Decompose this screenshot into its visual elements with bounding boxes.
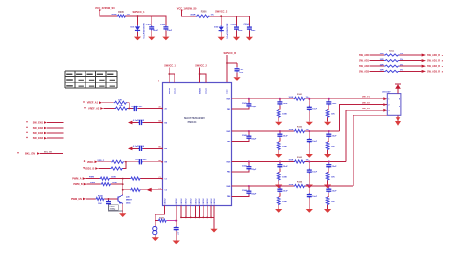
svg-text:100K: 100K [282, 114, 287, 116]
ground [134, 37, 141, 41]
svg-text:0.1uF/C322: 0.1uF/C322 [135, 159, 147, 161]
ground [148, 37, 155, 41]
svg-text:3: 3 [388, 110, 389, 112]
svg-text:R305: R305 [118, 11, 124, 14]
capacitor C303 [231, 16, 244, 37]
svg-text:8: 8 [442, 55, 444, 57]
wire junction [105, 198, 118, 200]
svg-text:SW_AD2: SW_AD2 [359, 65, 370, 68]
wire [87, 183, 101, 185]
svg-text:SW1: SW1 [226, 99, 230, 101]
svg-text:5: 5 [399, 106, 400, 108]
svg-text:FB2: FB2 [227, 141, 230, 143]
net label SW_EN4 [26, 137, 63, 140]
svg-text:VDD1_B: VDD1_B [84, 168, 94, 171]
capacitor C331 [174, 206, 180, 241]
svg-text:R306: R306 [201, 11, 207, 14]
svg-text:10K: 10K [331, 114, 335, 116]
ground [324, 209, 331, 213]
svg-text:SW2: SW2 [226, 131, 230, 133]
capacitor C321 [131, 106, 143, 111]
pin SW2IN pair [199, 87, 207, 94]
svg-text:10K: 10K [98, 203, 102, 205]
svg-text:VREF_A1: VREF_A1 [87, 102, 99, 105]
capacitor C353 [277, 162, 288, 173]
ground [162, 37, 169, 41]
value label 0.1uF 25V X7R [143, 23, 145, 38]
capacitor C302 [160, 16, 173, 37]
resistor R313 [370, 64, 422, 67]
wire bottom bus [180, 217, 214, 219]
wire rail row 4 [232, 185, 354, 187]
svg-text:3904: 3904 [126, 202, 131, 205]
pin names row 4 [226, 185, 230, 198]
net label SW_V1 [362, 97, 387, 100]
svg-text:FB1: FB1 [227, 109, 230, 111]
svg-text:22pF: 22pF [252, 193, 257, 195]
svg-text:22pF: 22pF [252, 106, 257, 108]
resistor R324 [110, 167, 123, 170]
svg-text:FB4: FB4 [227, 195, 230, 198]
svg-text:10uF: 10uF [283, 190, 288, 192]
wire [182, 11, 196, 16]
net label SW_V3 [362, 108, 387, 111]
resistor R322 [115, 105, 128, 110]
svg-text:10uF: 10uF [283, 166, 288, 168]
svg-text:SW_AD1: SW_AD1 [359, 60, 370, 63]
svg-text:PWM_B: PWM_B [73, 183, 83, 186]
ground [173, 241, 180, 245]
wire [102, 102, 114, 104]
resistor R364 [326, 197, 335, 209]
svg-text:C303: C303 [231, 24, 237, 26]
net label SW_AD1_R [422, 59, 444, 63]
svg-text:10uF: 10uF [283, 103, 288, 105]
svg-text:8: 8 [442, 71, 444, 73]
svg-text:100K: 100K [289, 184, 294, 186]
pin number 1 [158, 81, 160, 83]
net label SWVCC_1 at IC top [164, 65, 176, 68]
wire junction [128, 108, 133, 110]
svg-text:10uF: 10uF [332, 103, 337, 105]
svg-text:GND12: GND12 [191, 199, 193, 205]
capacitor C364 [307, 186, 318, 209]
wire emitter [122, 204, 124, 214]
svg-text:100K: 100K [282, 146, 287, 148]
ground [275, 154, 282, 158]
net label SW_EN1 [26, 121, 63, 124]
svg-text:SW_V2: SW_V2 [362, 103, 371, 105]
svg-text:33R: 33R [380, 64, 384, 66]
svg-text:33R: 33R [380, 70, 384, 72]
net label PWM_B [73, 182, 95, 186]
svg-text:100K: 100K [282, 177, 287, 179]
svg-text:C304: C304 [243, 23, 249, 26]
svg-text:10K: 10K [119, 105, 123, 107]
svg-text:SW_AD0: SW_AD0 [359, 54, 370, 57]
resistor R333 [101, 182, 118, 186]
wire [127, 103, 129, 109]
svg-text:SWVCC_2: SWVCC_2 [195, 65, 207, 68]
net label SW_AD0_R [422, 54, 444, 58]
svg-text:10K: 10K [331, 201, 335, 203]
svg-text:2: 2 [388, 105, 389, 107]
svg-text:SW_V1: SW_V1 [362, 97, 371, 99]
svg-text:SW_EN2: SW_EN2 [33, 127, 44, 130]
svg-text:1uF: 1uF [178, 231, 180, 235]
capacitor C362 [307, 131, 318, 154]
svg-text:MMBT: MMBT [126, 200, 133, 202]
svg-text:SW2IN: SW2IN [206, 87, 208, 94]
net label VCC_1V8SW_S0 [177, 8, 197, 12]
net label PWM_EN [71, 198, 86, 201]
svg-text:GND12: GND12 [195, 199, 197, 205]
svg-text:1%: 1% [306, 184, 309, 186]
svg-text:GND12: GND12 [164, 199, 166, 205]
capacitor C351 [277, 99, 288, 110]
svg-text:1%: 1% [306, 160, 309, 162]
transistor Q30 [118, 195, 133, 205]
ground [275, 185, 282, 189]
ground [275, 209, 282, 213]
svg-text:B8: B8 [165, 162, 167, 164]
wire rail row 2 [232, 130, 340, 132]
capacitor C342 bypass [242, 131, 257, 140]
net label BKL_EN [17, 151, 63, 155]
net label SW_AD0 [359, 54, 370, 57]
svg-text:1%: 1% [400, 70, 403, 72]
svg-text:SWVCC_1: SWVCC_1 [164, 65, 176, 68]
svg-text:R344: R344 [297, 180, 303, 183]
capacitor C372 [326, 131, 337, 142]
zener diode D32 [214, 16, 224, 37]
svg-text:0.1uF/25V/X7R: 0.1uF/25V/X7R [227, 23, 229, 38]
svg-text:BKL_EN: BKL_EN [25, 153, 35, 156]
svg-text:D31: D31 [130, 27, 135, 29]
svg-text:33R: 33R [380, 53, 384, 55]
svg-text:10uF: 10uF [153, 30, 159, 32]
resistor R352 [277, 142, 287, 154]
zener diode D31 [130, 16, 140, 37]
svg-text:FB3: FB3 [227, 172, 230, 174]
wire rail row 3 [232, 161, 347, 163]
svg-text:PWM_A: PWM_A [72, 178, 82, 181]
resistor R344 [289, 180, 309, 187]
pin names row 2 [226, 131, 230, 143]
resistor R362 [326, 142, 335, 154]
wire to ground [213, 217, 215, 228]
resistor R351 [277, 109, 287, 121]
resistor R323 [111, 160, 124, 163]
svg-text:100K: 100K [289, 129, 294, 131]
op-amp U30 PMIC body [163, 83, 232, 206]
svg-text:SW_EN4: SW_EN4 [33, 137, 44, 140]
ground [306, 209, 313, 213]
svg-text:1000p: 1000p [110, 209, 116, 211]
resistor R363 [326, 172, 335, 184]
svg-text:10uF: 10uF [312, 141, 317, 143]
pin names IC bottom [164, 199, 216, 205]
capacitor C363 [307, 162, 318, 185]
svg-text:10K: 10K [118, 99, 122, 101]
pin names row 1 [226, 99, 230, 111]
svg-text:GND12: GND12 [207, 199, 209, 205]
resistor R306 [190, 11, 213, 18]
capacitor C330 [106, 199, 123, 211]
capacitor C352 [277, 131, 288, 142]
svg-text:U31 AD7: U31 AD7 [382, 90, 391, 93]
svg-text:300R: 300R [111, 14, 117, 16]
wire [103, 108, 114, 110]
svg-text:33R: 33R [380, 59, 384, 61]
svg-text:VDD1: VDD1 [87, 161, 94, 164]
svg-text:SWVCC_B: SWVCC_B [224, 52, 237, 55]
net label VREF_A2 [84, 107, 103, 110]
wire riser row3 [346, 110, 381, 161]
svg-text:GND12: GND12 [176, 199, 178, 205]
svg-text:SW3: SW3 [226, 161, 230, 163]
svg-text:SW4: SW4 [226, 185, 230, 188]
svg-text:SW_EN3: SW_EN3 [33, 132, 44, 135]
ground [246, 37, 253, 41]
wire [226, 55, 237, 83]
net label SW_EN3 [26, 132, 63, 135]
label box C330 value [109, 205, 119, 211]
capacitor C322 [135, 159, 147, 164]
ground [233, 37, 240, 41]
ground [306, 185, 313, 189]
net label SW_V2 [362, 103, 387, 106]
capacitor C354 [277, 186, 288, 197]
svg-text:1%: 1% [400, 59, 403, 61]
ground [275, 122, 282, 126]
capacitor C301 [146, 16, 159, 37]
svg-text:1: 1 [158, 81, 160, 83]
pin names row 3 [226, 161, 230, 173]
wire [98, 168, 110, 170]
svg-text:10uF: 10uF [332, 190, 337, 192]
capacitor C304 [243, 16, 256, 37]
capacitor C306 inline stub [128, 146, 167, 151]
net label VDD1_B [83, 167, 98, 170]
wire [86, 178, 100, 180]
svg-text:100K: 100K [282, 201, 287, 203]
capacitor C371 [326, 99, 337, 110]
svg-text:1%: 1% [306, 129, 309, 131]
wire riser row2 [339, 105, 381, 131]
ground [233, 77, 240, 81]
wire riser row4 [353, 115, 387, 186]
svg-text:SW_V3: SW_V3 [362, 108, 371, 110]
svg-text:10K: 10K [331, 146, 335, 148]
wire node SWVCC_2 [210, 11, 250, 18]
wire riser bus [122, 179, 124, 195]
svg-text:BKL_EN: BKL_EN [44, 151, 53, 153]
svg-text:R341: R341 [297, 93, 303, 96]
svg-text:SWVCC_1: SWVCC_1 [132, 11, 145, 14]
svg-text:8: 8 [442, 66, 444, 68]
net label VDD1 [84, 160, 105, 164]
svg-text:SW_EN1: SW_EN1 [33, 122, 44, 125]
svg-text:100K: 100K [289, 97, 294, 99]
resistor R336 [155, 217, 166, 222]
net label SW_AD1 [359, 60, 370, 63]
svg-text:C1: C1 [165, 178, 167, 180]
svg-text:C301: C301 [146, 24, 152, 26]
net label SW_AD2 [359, 65, 370, 68]
resistor R321 [114, 99, 127, 104]
svg-text:D32: D32 [214, 27, 219, 29]
wire riser [123, 162, 126, 169]
svg-text:PWM_EN: PWM_EN [71, 198, 82, 201]
svg-text:C3: C3 [165, 190, 167, 192]
svg-text:SW1IN: SW1IN [169, 87, 171, 94]
svg-text:10uF: 10uF [312, 109, 317, 111]
resistor R305 [111, 11, 129, 17]
svg-text:10uF: 10uF [167, 30, 173, 32]
svg-text:SW_AD2_R: SW_AD2_R [427, 65, 440, 68]
svg-text:GND12: GND12 [211, 199, 213, 205]
resistor R341 [289, 93, 309, 100]
ground [119, 213, 126, 217]
wire pin to RC chain [155, 206, 164, 221]
wire junction [124, 161, 138, 163]
wire to pin [141, 178, 167, 181]
ground [324, 154, 331, 158]
wire feedback stub row 1 [232, 107, 249, 109]
wire pink link [167, 220, 177, 222]
svg-text:GND12: GND12 [181, 199, 183, 205]
pin numbers left edge [159, 106, 161, 190]
wire feedback stub row 2 [232, 139, 249, 141]
svg-text:1%: 1% [400, 53, 403, 55]
wire staple pins SW1 [168, 68, 174, 83]
svg-text:22pF: 22pF [252, 169, 257, 171]
resistor R353 [277, 172, 287, 184]
net label SWVCC_2 at IC top [195, 65, 207, 68]
svg-text:0.1uF/C306: 0.1uF/C306 [133, 146, 145, 148]
connector U31 [382, 90, 401, 115]
svg-text:SW_AD1_R: SW_AD1_R [427, 60, 440, 63]
wire feedback stub row 4 [232, 194, 249, 196]
svg-text:R342: R342 [297, 125, 303, 128]
ground [306, 154, 313, 158]
ground arrow [395, 115, 401, 126]
svg-text:B6: B6 [165, 148, 167, 150]
pin VINB [227, 89, 229, 94]
ground [324, 122, 331, 126]
resistor R334 [123, 188, 141, 191]
resistor R312 [370, 59, 422, 62]
net label SW_AD2_R [422, 65, 444, 69]
wire [86, 198, 96, 200]
net label SW_AD3 [359, 70, 370, 73]
svg-text:GND12: GND12 [214, 199, 216, 205]
svg-text:10uF: 10uF [312, 171, 317, 173]
ground [152, 237, 159, 241]
capacitor C344 bypass [242, 186, 257, 195]
svg-text:MAX77620AEWV: MAX77620AEWV [184, 116, 205, 120]
net label SW_EN2 [26, 127, 63, 130]
svg-text:A1: A1 [165, 107, 167, 110]
power arrow VCC [395, 84, 401, 94]
capacitor C343 bypass [242, 162, 257, 171]
svg-text:R335: R335 [98, 195, 104, 197]
resistor R354 [277, 197, 287, 209]
net label PWM_A [72, 177, 94, 181]
ground [324, 185, 331, 189]
svg-text:GND12: GND12 [199, 199, 201, 205]
svg-text:VCC_1V8SW_S0: VCC_1V8SW_S0 [177, 8, 197, 11]
svg-text:10uF: 10uF [332, 166, 337, 168]
resistor R331 [100, 177, 117, 181]
value label 0.1uF 25V X7R [227, 23, 229, 38]
svg-text:VCC_3V3SW_S0: VCC_3V3SW_S0 [95, 7, 115, 10]
svg-text:8: 8 [442, 61, 444, 63]
svg-text:10uF: 10uF [283, 135, 288, 137]
capacitor C305 inline stub [128, 120, 168, 125]
svg-text:SW1IN: SW1IN [175, 87, 177, 94]
wire with arrow to pin [141, 188, 167, 192]
svg-text:PMIC44: PMIC44 [188, 121, 197, 124]
svg-text:SW_AD3: SW_AD3 [359, 70, 370, 73]
wire to pin [138, 107, 167, 110]
svg-text:10uF: 10uF [332, 135, 337, 137]
ground [306, 122, 313, 126]
resistor R311 [370, 50, 422, 56]
svg-text:VREF_A2: VREF_A2 [88, 108, 100, 111]
resistor R361 [326, 109, 335, 121]
table power rail table [65, 71, 117, 88]
thermistor RT30 [153, 221, 157, 238]
svg-text:C31: C31 [239, 69, 244, 71]
wire junction [110, 178, 130, 180]
pin SW1IN pair [169, 87, 177, 94]
svg-text:0.1uF/C321: 0.1uF/C321 [131, 106, 143, 108]
wire bottom pin stubs [181, 206, 214, 218]
svg-text:SW_AD3_R: SW_AD3_R [427, 70, 440, 73]
svg-text:GND12: GND12 [203, 199, 205, 205]
ground [210, 229, 217, 233]
svg-text:300R: 300R [190, 14, 196, 16]
svg-text:SW_AD0_R: SW_AD0_R [427, 54, 440, 57]
svg-text:100K: 100K [289, 160, 294, 162]
wire rail row 1 [232, 98, 382, 100]
svg-text:22pF: 22pF [252, 138, 257, 140]
svg-text:SWVCC_2: SWVCC_2 [215, 11, 228, 14]
svg-text:1: 1 [388, 99, 389, 101]
svg-text:1%: 1% [400, 64, 403, 66]
wire to pin [143, 161, 167, 164]
svg-text:1%: 1% [306, 97, 309, 99]
resistor R335 [96, 195, 105, 205]
net label SW_AD3_R [422, 70, 444, 74]
svg-text:SW2IN: SW2IN [199, 87, 201, 94]
svg-text:C302: C302 [160, 24, 166, 26]
capacitor C373 [326, 162, 337, 173]
capacitor C341 bypass [242, 99, 257, 108]
capacitor C31 [235, 67, 245, 77]
wire [100, 11, 117, 16]
net label VCC_3V3SW_S0 [95, 7, 115, 11]
wire staple pins SW2 [199, 68, 206, 83]
wire node SWVCC_1 [126, 11, 167, 17]
svg-text:10K: 10K [331, 177, 335, 179]
svg-text:8: 8 [399, 99, 400, 101]
svg-text:1uF: 1uF [239, 72, 244, 74]
svg-text:10uF: 10uF [251, 30, 257, 32]
wire [98, 161, 112, 163]
